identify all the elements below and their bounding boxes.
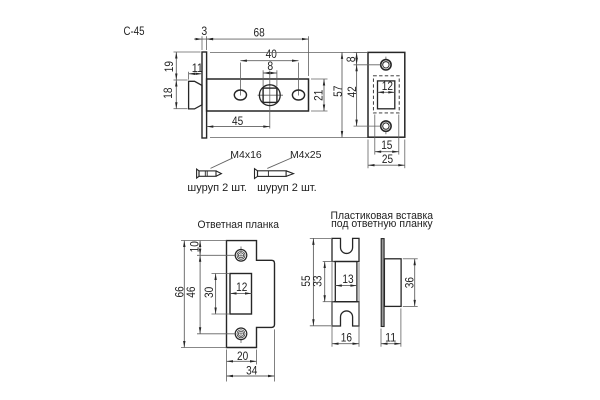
strike plate top screw hole bbox=[235, 247, 247, 262]
svg-text:34: 34 bbox=[246, 364, 257, 378]
dim 45 (spindle to faceplate) bbox=[207, 114, 270, 128]
insert title line 2 bbox=[331, 218, 433, 230]
right oval hole bbox=[292, 90, 304, 100]
svg-text:36: 36 bbox=[402, 277, 416, 288]
svg-text:под ответную планку: под ответную планку bbox=[331, 218, 433, 230]
svg-text:M4x16: M4x16 bbox=[230, 149, 262, 161]
insert title line 1 bbox=[331, 210, 434, 222]
dim 55 (insert height) with extension lines bbox=[299, 238, 331, 325]
svg-text:42: 42 bbox=[345, 86, 359, 97]
svg-text:8: 8 bbox=[344, 56, 358, 62]
svg-text:13: 13 bbox=[342, 272, 353, 286]
svg-text:25: 25 bbox=[382, 152, 393, 166]
latch faceplate bar (side view) bbox=[202, 52, 207, 138]
latch bolt (beveled) bbox=[189, 81, 202, 109]
drawing title C-45 bbox=[124, 24, 145, 38]
svg-text:21: 21 bbox=[312, 89, 326, 100]
svg-text:16: 16 bbox=[341, 331, 352, 345]
dim 8 (top hole offset, front view) bbox=[344, 52, 381, 71]
centerline of right oval hole bbox=[298, 63, 300, 96]
svg-text:шуруп 2 шт.: шуруп 2 шт. bbox=[187, 182, 247, 194]
dim 66 (strike plate height) with extension lines bbox=[173, 241, 227, 348]
label screw 1 quantity bbox=[187, 182, 247, 194]
latch body rectangle bbox=[207, 79, 309, 111]
insert front view side extension lines bbox=[332, 263, 359, 328]
dim 40 (oval hole spacing) bbox=[240, 47, 298, 62]
insert side view body bbox=[384, 259, 401, 307]
dim 19 with extension lines bbox=[162, 52, 201, 80]
label M4x25 bbox=[290, 149, 322, 161]
svg-text:15: 15 bbox=[381, 138, 392, 152]
svg-text:12: 12 bbox=[382, 79, 393, 93]
svg-text:C-45: C-45 bbox=[124, 24, 145, 38]
dim 3 (faceplate thickness) with extension lines bbox=[194, 24, 215, 50]
dim 25 with extension lines bbox=[368, 140, 405, 169]
svg-text:19: 19 bbox=[162, 61, 176, 72]
centerlines of spindle hole bbox=[258, 71, 283, 129]
strike plate latch opening bbox=[230, 274, 252, 315]
dim 12 (opening width, front view) bbox=[378, 79, 395, 94]
svg-text:18: 18 bbox=[161, 87, 175, 98]
strike plate title bbox=[197, 219, 279, 231]
dim 11 (insert depth) with extension lines bbox=[381, 308, 401, 346]
dim 33 (insert middle height) with extension lines bbox=[310, 262, 334, 302]
svg-text:46: 46 bbox=[184, 286, 198, 297]
faceplate front view plate bbox=[368, 52, 405, 137]
svg-text:30: 30 bbox=[202, 287, 216, 298]
faceplate bottom screw hole bbox=[381, 121, 391, 134]
centerline of left oval hole bbox=[239, 63, 241, 96]
svg-text:11: 11 bbox=[385, 331, 396, 345]
svg-text:Ответная планка: Ответная планка bbox=[197, 219, 279, 231]
leader line for M4x25 bbox=[267, 158, 292, 169]
svg-text:10: 10 bbox=[188, 241, 202, 252]
dim 46 (strike hole spacing) bbox=[184, 255, 235, 333]
dim 36 (insert body height) with extension lines bbox=[402, 259, 417, 307]
leader line for M4x16 bbox=[211, 158, 234, 169]
dim 8 (square hole) with extension lines bbox=[263, 59, 277, 87]
dim 21 (body height) with extension lines bbox=[311, 79, 328, 111]
svg-text:45: 45 bbox=[232, 114, 243, 128]
dim 10 (strike top hole offset) bbox=[188, 241, 235, 256]
svg-text:M4x25: M4x25 bbox=[290, 149, 322, 161]
svg-text:33: 33 bbox=[310, 275, 324, 286]
label screw 2 quantity bbox=[257, 182, 317, 194]
label M4x16 bbox=[230, 149, 262, 161]
svg-text:68: 68 bbox=[254, 26, 265, 40]
svg-text:11: 11 bbox=[192, 61, 203, 75]
dim 42 (hole spacing, front view) bbox=[345, 65, 381, 126]
svg-text:20: 20 bbox=[237, 349, 248, 363]
svg-text:3: 3 bbox=[201, 24, 207, 38]
dim 68 (body length) bbox=[207, 26, 309, 76]
faceplate top screw hole bbox=[381, 57, 391, 70]
strike plate bottom screw hole bbox=[235, 328, 247, 343]
dim 13 (insert middle width) bbox=[335, 272, 357, 287]
svg-text:57: 57 bbox=[331, 85, 345, 96]
dim 57 (faceplate height, side view) with extension lines bbox=[210, 52, 368, 137]
dim 12 (strike opening width) bbox=[230, 280, 252, 295]
svg-text:12: 12 bbox=[236, 280, 247, 294]
insert side view flange plate bbox=[381, 239, 384, 327]
svg-text:шуруп 2 шт.: шуруп 2 шт. bbox=[257, 182, 317, 194]
dim 11 (bolt length) with extension line bbox=[189, 61, 204, 80]
svg-text:8: 8 bbox=[267, 59, 273, 73]
dim 15 with extension lines bbox=[375, 115, 399, 155]
insert middle section rectangle (13 wide) bbox=[335, 262, 357, 302]
faceplate dashed opening outline bbox=[373, 76, 399, 113]
dim 16 (insert width) with extension lines bbox=[332, 328, 359, 347]
faceplate latch opening rectangle bbox=[378, 81, 395, 109]
left oval hole bbox=[234, 90, 246, 100]
screw M4x25 drawing bbox=[255, 169, 294, 179]
screw M4x16 drawing bbox=[197, 169, 222, 178]
strike plate outline with lip bbox=[227, 241, 275, 348]
dim 30 (strike opening height) with extension lines bbox=[202, 274, 229, 315]
insert front view outline (spool with U-notches) bbox=[332, 238, 359, 326]
dim 34 with extension lines bbox=[227, 329, 275, 381]
dim 20 with extension lines bbox=[227, 349, 257, 365]
dim 18 with extension line bbox=[161, 80, 188, 109]
spindle hole: circle and 8mm square bbox=[259, 85, 280, 106]
